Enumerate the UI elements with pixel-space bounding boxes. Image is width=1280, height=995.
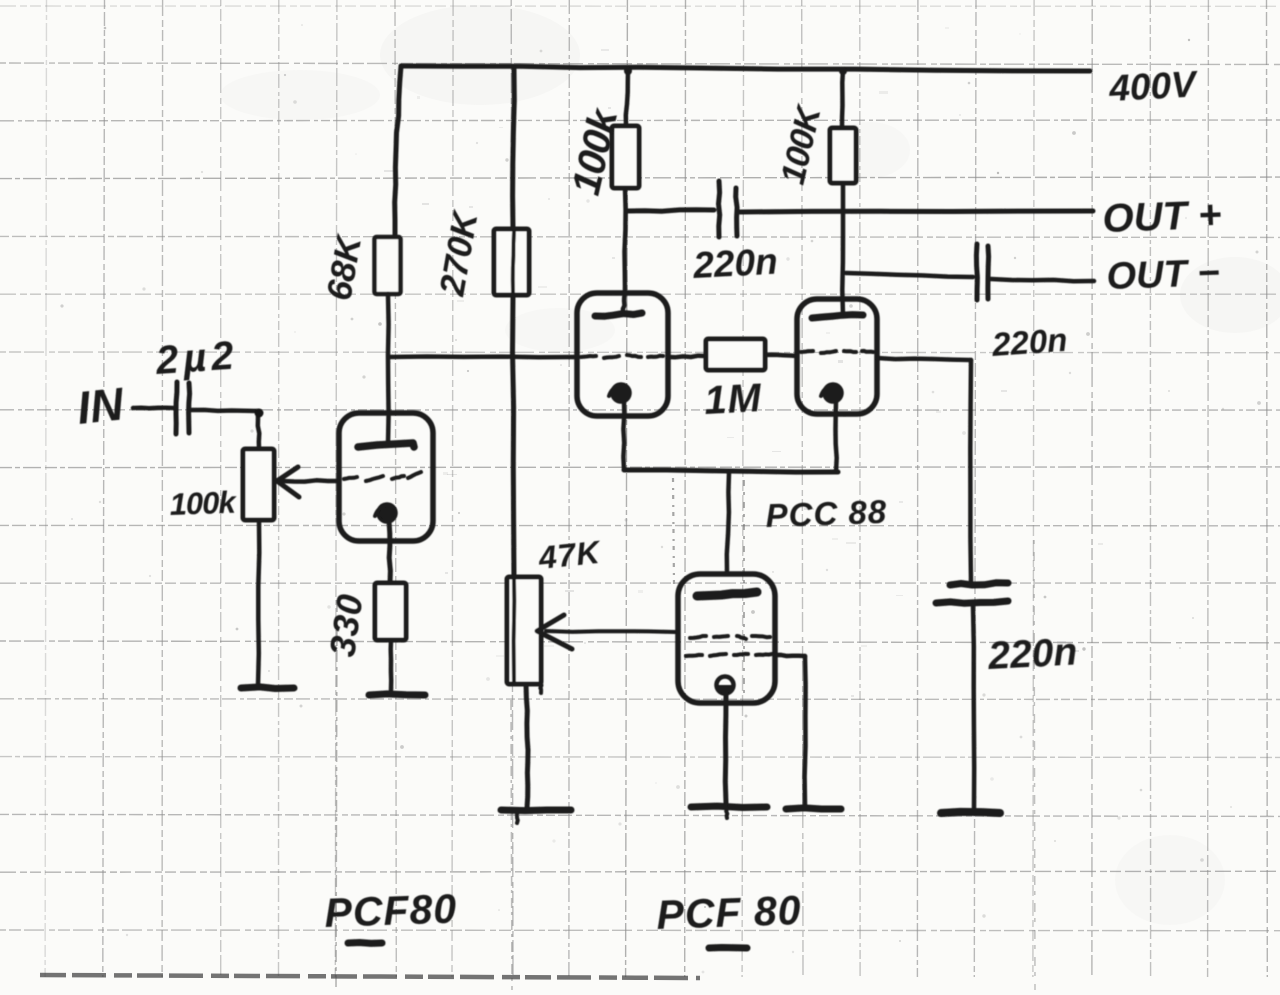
svg-text:220n: 220n <box>986 630 1078 678</box>
svg-text:400V: 400V <box>1107 63 1200 109</box>
svg-text:100k: 100k <box>169 485 238 522</box>
svg-text:220n: 220n <box>691 241 778 286</box>
svg-text:1M: 1M <box>703 376 763 423</box>
svg-text:OUT +: OUT + <box>1102 193 1222 241</box>
svg-text:IN: IN <box>75 377 127 434</box>
svg-text:PCF80: PCF80 <box>324 885 458 936</box>
svg-text:PCC 88: PCC 88 <box>765 493 888 534</box>
svg-text:220n: 220n <box>990 321 1069 363</box>
svg-text:OUT −: OUT − <box>1106 252 1220 298</box>
svg-text:47K: 47K <box>536 534 604 577</box>
svg-text:330: 330 <box>321 591 370 659</box>
svg-text:2µ2: 2µ2 <box>154 333 240 383</box>
svg-text:PCF 80: PCF 80 <box>656 887 803 938</box>
